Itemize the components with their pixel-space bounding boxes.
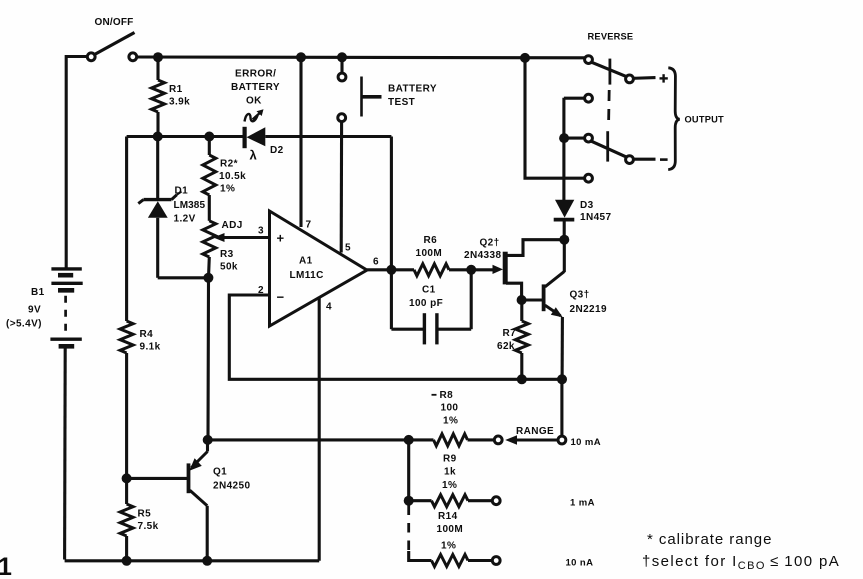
diode D3 [554,98,575,240]
svg-text:Q3†: Q3† [570,290,590,301]
label R8 value [432,390,459,427]
wire range row [208,438,434,441]
svg-text:TEST: TEST [388,97,415,108]
resistor R2 [203,137,216,221]
output brace [668,68,679,170]
switch REVERSE throw 1 [626,75,634,83]
svg-text:100 pF: 100 pF [409,298,443,309]
svg-text:100M: 100M [437,524,464,535]
wire D3 node to Q3 collector [563,240,566,273]
op-amp A1 [270,211,368,326]
output minus marker [660,158,668,161]
resistor R5 [120,479,133,561]
svg-text:100M: 100M [416,248,443,259]
svg-text:RANGE: RANGE [516,426,554,437]
svg-text:R5: R5 [138,509,152,520]
label ERROR/BATTERY OK [231,69,280,107]
label ON/OFF [95,17,134,28]
switch REVERSE contact 4 [585,174,593,182]
switch REVERSE linkage dashed [607,90,611,128]
svg-text:Q1: Q1 [213,467,227,478]
label 1 mA [570,498,595,509]
svg-text:ON/OFF: ON/OFF [95,17,134,28]
label B1 value [6,287,45,330]
node junction Q1 emitter range row [203,435,213,445]
svg-text:1%: 1% [220,184,235,195]
label D1 value [174,186,206,225]
label RANGE [516,426,554,437]
svg-text:R2*: R2* [220,159,238,170]
node junction Q1 collector bottom rail [202,556,212,566]
svg-text:LM385: LM385 [174,200,206,211]
resistor R6 [414,264,497,276]
svg-text:1.2V: 1.2V [174,214,196,225]
svg-text:R8: R8 [440,390,454,401]
transistor Q1 [127,440,208,561]
potentiometer R3 [203,221,216,440]
output plus marker [660,74,668,82]
svg-text:ERROR/: ERROR/ [235,69,276,80]
svg-text:2N4338: 2N4338 [464,250,501,261]
label lambda of D2 [250,148,258,163]
svg-text:50k: 50k [220,262,238,273]
svg-text:Q2†: Q2† [480,238,500,249]
label R2 value [219,159,246,195]
terminal 10 nA [492,557,500,565]
pushbutton BATTERY TEST actuator [362,77,382,117]
pushbutton BATTERY TEST lower contact [338,114,346,253]
pin 2 label [258,285,264,296]
figure number 1 [0,553,12,579]
svg-text:10 nA: 10 nA [566,558,594,569]
wire contact 2 to D3 column [564,97,584,100]
label R3 value [220,249,238,273]
svg-text:BATTERY: BATTERY [231,82,280,93]
label 10 mA [571,437,602,448]
wire throw 2 to - output [634,158,656,161]
label ADJ [222,220,243,231]
label Q1 value [213,467,250,492]
label D2 [270,145,284,156]
note select for ICBO [642,553,840,572]
wire op-amp pin 6 output [367,268,414,271]
svg-text:R3: R3 [220,249,234,260]
label R4 value [140,329,161,353]
wire contact 3 to D3 column [564,137,584,140]
switch ON/OFF blade [95,33,135,55]
label Q3 value [570,290,607,316]
range selector arrow [505,435,557,444]
svg-text:7.5k: 7.5k [138,521,159,532]
wire Q3 emitter down to feedback node [561,317,564,379]
label OUTPUT [685,115,725,125]
svg-text:R6: R6 [424,235,438,246]
node junction D1 R3 bottom [203,273,213,283]
wire op-amp pin 2 feedback loop [229,295,562,379]
node junction pin7 rail [296,52,306,62]
node junction R5 bottom rail [122,556,132,566]
svg-text:C1: C1 [422,284,436,295]
svg-text:D1: D1 [175,186,189,197]
svg-text:D2: D2 [270,145,284,156]
wire node row below R1 [127,135,245,138]
op-amp plus input marker [277,231,285,246]
node junction reverse feed rail [520,53,530,63]
switch REVERSE pole 2 blade [591,131,628,161]
svg-text:LM11C: LM11C [290,270,324,281]
svg-text:2N2219: 2N2219 [570,304,607,315]
battery B1 [50,269,82,346]
svg-text:1N457: 1N457 [580,212,612,223]
svg-text:1%: 1% [442,480,457,491]
svg-text:R14: R14 [438,511,458,522]
pin 6 label [373,257,379,268]
JFET Q2 [493,240,565,300]
label D3 value [580,200,612,223]
wire throw 1 to + output [634,76,656,80]
capacitor C1 [391,270,471,345]
svg-text:1: 1 [0,553,12,579]
svg-text:+: + [277,231,285,246]
svg-text:REVERSE: REVERSE [588,31,634,41]
svg-text:1k: 1k [444,466,456,477]
pin 7 label [306,220,312,231]
wire left battery rail (bottom) [63,347,67,560]
svg-text:R4: R4 [140,329,154,340]
label 10 nA [566,558,594,569]
svg-text:100: 100 [441,403,459,414]
svg-text:5: 5 [345,243,351,254]
node junction reverse contact 3 [559,133,569,143]
wire op-amp pin 4 to bottom rail [318,297,321,561]
wire feedback node to 10mA terminal [560,379,563,436]
switch REVERSE contact 2 [585,94,593,102]
label R9 value [442,454,457,491]
note calibrate range [647,531,772,548]
svg-text:10 mA: 10 mA [571,437,602,448]
svg-text:R7: R7 [503,328,517,339]
svg-text:9.1k: 9.1k [140,342,161,353]
label R6 value [416,235,443,259]
resistor R14 [432,555,493,567]
wire left battery rail (top) [66,57,87,268]
node junction R8 R9 [404,435,414,445]
svg-text:62k: 62k [497,341,515,352]
zener diode D1 [138,137,208,278]
resistor R4 [120,137,133,479]
svg-text:†select for ICBO ≤ 100 pA: †select for ICBO ≤ 100 pA [642,553,840,572]
wire D2 anode to output node [390,137,393,270]
label BATTERY TEST [388,83,437,108]
resistor R7 [515,300,528,379]
switch REVERSE pole 1 blade [591,59,628,85]
svg-text:1 mA: 1 mA [570,498,595,509]
label R5 value [138,509,159,533]
node junction R6 C1 gate [466,265,476,275]
svg-text:R9: R9 [443,454,457,465]
node junction R7 feedback [517,374,527,384]
LED D2 [245,127,392,148]
label Q2 value [464,238,501,261]
svg-text:B1: B1 [31,287,45,298]
svg-text:−: − [277,290,285,305]
terminal 1 mA [492,497,500,505]
pin 4 label [326,302,332,313]
svg-text:1%: 1% [443,416,458,427]
switch REVERSE contact 1 [585,56,593,64]
node junction Q2 source Q3 base [517,295,527,305]
svg-text:BATTERY: BATTERY [388,83,437,94]
node junction R9 R14 [404,496,414,506]
svg-text:3.9k: 3.9k [169,97,190,108]
node junction Q3 emitter feedback [557,374,567,384]
svg-text:* calibrate range: * calibrate range [647,531,772,548]
svg-text:6: 6 [373,257,379,268]
switch ON/OFF throw contact [129,53,137,61]
wire R9 node down to R14 (dashed) [409,506,432,561]
node junction R4 R5 Q1 base [122,473,132,483]
switch REVERSE throw 2 [626,156,634,164]
resistor R8 [434,434,495,446]
node junction R1 top [153,52,163,62]
resistor R9 [409,495,492,507]
switch REVERSE contact 3 [585,134,593,142]
wire R8 node down to R9 [407,440,410,501]
svg-text:10.5k: 10.5k [219,171,246,182]
op-amp minus input marker [277,290,285,305]
svg-text:(>5.4V): (>5.4V) [6,319,42,330]
svg-text:A1: A1 [299,256,313,267]
node junction R2 top [204,132,214,142]
svg-text:D3: D3 [580,200,594,211]
svg-text:ADJ: ADJ [222,220,243,231]
svg-text:3: 3 [258,226,264,237]
node junction D3 bottom [559,235,569,245]
pin 3 label [258,226,264,237]
svg-text:2N4250: 2N4250 [213,481,250,492]
wire op-amp pin 7 to supply rail [299,57,302,227]
svg-text:1%: 1% [441,541,456,552]
label C1 value [409,284,443,309]
svg-text:R1: R1 [169,84,183,95]
terminal 10 mA [558,436,566,444]
pin 5 label [345,243,351,254]
svg-text:OUTPUT: OUTPUT [685,115,725,125]
node junction battery-test rail [337,52,347,62]
wiper arrow ADJ of R3 [213,233,269,242]
resistor R1 [152,57,165,137]
wire bottom ground rail [65,559,320,562]
wire contact 4 up to supply rail [525,58,584,178]
svg-text:9V: 9V [28,305,41,316]
LED D2 emission squiggle arrow [245,109,264,121]
label A1 [290,256,324,282]
pushbutton BATTERY TEST upper contact [338,57,346,81]
label R1 value [169,84,190,108]
label R7 value [497,328,516,352]
svg-text:7: 7 [306,220,312,231]
wire top supply rail [135,55,587,59]
svg-text:OK: OK [246,96,262,107]
node junction op-amp output [386,265,396,275]
terminal R8 output [494,436,502,444]
transistor Q3 [522,272,565,318]
node junction D1 top [153,132,163,142]
label REVERSE [588,31,634,41]
label R14 value [437,511,464,552]
switch ON/OFF pole contact [87,53,95,61]
svg-text:λ: λ [250,148,258,163]
svg-text:4: 4 [326,302,332,313]
